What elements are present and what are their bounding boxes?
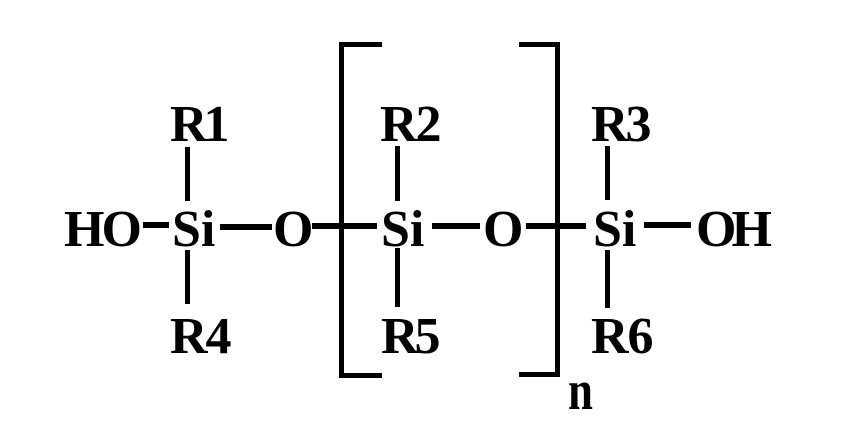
- wire vertical bond Si3-R6: [605, 250, 610, 308]
- wire bond Si3-OH: [644, 222, 691, 228]
- substituent label R4: [170, 311, 230, 363]
- atom Si1: [172, 204, 215, 256]
- atom Si3: [593, 204, 636, 256]
- atom Si2 (repeat unit): [381, 204, 424, 256]
- left bracket bottom arm: [339, 373, 382, 378]
- wire vertical bond Si2-R5: [395, 248, 400, 307]
- atom O2: [483, 204, 523, 256]
- substituent label R5: [381, 311, 437, 363]
- substituent label R3: [591, 99, 649, 151]
- wire bond HO-Si1: [143, 222, 169, 228]
- substituent label R2: [380, 99, 440, 151]
- atom group OH (right terminal hydroxyl): [696, 204, 767, 256]
- substituent label R1: [170, 99, 226, 151]
- wire vertical bond Si1-R4: [185, 250, 190, 304]
- right bracket top arm: [519, 42, 560, 47]
- wire vertical bond R2-Si2: [395, 146, 400, 201]
- right bracket bottom arm: [519, 372, 560, 377]
- wire bond O2-Si3 (crosses right bracket): [526, 223, 586, 229]
- left bracket top arm: [339, 42, 382, 47]
- wire bond Si2-O2: [432, 223, 480, 229]
- right bracket vertical: [555, 42, 560, 377]
- atom O1: [273, 204, 313, 256]
- wire bond O1-Si2 (crosses left bracket): [312, 223, 377, 229]
- atom group HO (left terminal hydroxyl): [64, 204, 139, 256]
- wire bond Si1-O1: [220, 224, 272, 230]
- wire vertical bond R3-Si3: [605, 146, 610, 200]
- subscript n (repeat count): [568, 363, 593, 419]
- substituent label R6: [591, 311, 653, 363]
- wire vertical bond R1-Si1: [185, 147, 190, 201]
- left bracket vertical: [339, 42, 344, 378]
